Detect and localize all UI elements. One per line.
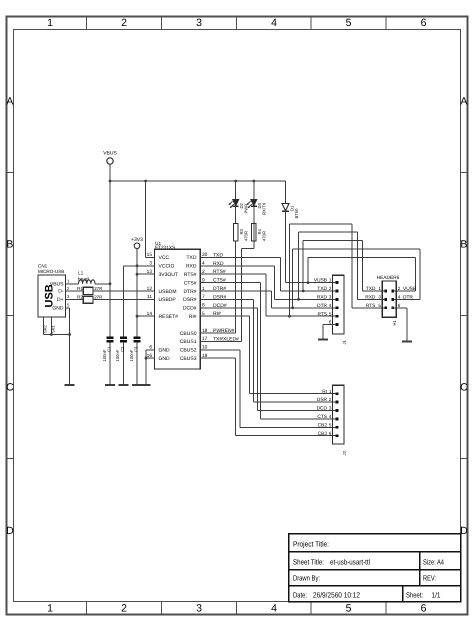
svg-text:RI#: RI# [189, 314, 197, 320]
resistor R2 27R [77, 295, 102, 304]
wire H1 pin6 to ground [392, 308, 407, 342]
svg-text:2: 2 [398, 286, 401, 291]
ground at CN1 [65, 384, 75, 386]
svg-text:Date:: Date: [293, 591, 307, 600]
svg-text:Size: A4: Size: A4 [423, 558, 444, 567]
svg-text:BT60: BT60 [294, 208, 299, 219]
svg-text:C3: C3 [134, 346, 139, 352]
svg-text:RXD: RXD [186, 264, 197, 270]
svg-text:CBUS1: CBUS1 [180, 339, 197, 345]
wire VBUS vertical down to C1 [109, 181, 111, 336]
svg-text:CB3: CB3 [318, 431, 328, 437]
svg-text:26/9/2560 10:12: 26/9/2560 10:12 [313, 591, 360, 600]
svg-text:3: 3 [196, 602, 202, 614]
svg-text:27R: 27R [94, 286, 102, 291]
wire R3 to PWREN row [235, 241, 237, 333]
svg-text:11: 11 [147, 294, 152, 300]
svg-text:CN1: CN1 [38, 263, 48, 268]
svg-text:6: 6 [149, 345, 152, 351]
resistor R1 27R [77, 286, 102, 294]
svg-text:DSR#: DSR# [183, 297, 197, 303]
svg-text:6: 6 [398, 303, 401, 308]
svg-text:RI: RI [322, 389, 327, 395]
svg-text:CTS: CTS [317, 414, 327, 420]
svg-text:DTR: DTR [403, 295, 413, 301]
wire CN1 GND pin down to ground [66, 307, 70, 309]
junction dots [50, 180, 309, 360]
svg-text:3: 3 [378, 295, 381, 300]
node VBUS terminal [103, 151, 117, 165]
connector J1 [314, 275, 347, 344]
svg-text:1: 1 [47, 17, 53, 29]
svg-text:RTS#: RTS# [184, 272, 197, 278]
svg-text:4: 4 [329, 414, 332, 419]
pin numbers U1 left [147, 252, 153, 359]
svg-text:TXD: TXD [187, 255, 197, 261]
diode D1 BT60 [282, 181, 299, 219]
svg-text:27R: 27R [94, 295, 102, 300]
wire TXRXLED row [200, 340, 241, 342]
svg-text:A: A [6, 95, 13, 107]
svg-text:D+: D+ [57, 297, 64, 303]
svg-text:3: 3 [329, 295, 332, 300]
wire RI net [200, 316, 336, 394]
wire VBUS top rail [110, 180, 286, 182]
pin numbers U1 right [202, 252, 208, 359]
svg-text:RX/TX: RX/TX [261, 202, 266, 215]
title block [289, 534, 461, 602]
svg-text:1: 1 [329, 389, 332, 394]
svg-text:A: A [460, 95, 467, 107]
IC U1 FT231XS [155, 241, 201, 369]
LED D3 RX/TX [247, 181, 267, 249]
wire C2 riser [122, 266, 124, 337]
svg-text:4: 4 [398, 295, 401, 300]
svg-text:B: B [460, 239, 467, 251]
wire DCD net [200, 308, 336, 411]
svg-text:VCCIO: VCCIO [159, 264, 175, 270]
wire J1 pin6 to ground [323, 325, 336, 340]
ground at H1 [402, 341, 412, 343]
svg-text:CBUS0: CBUS0 [180, 331, 197, 337]
wire chip GND pins [146, 350, 155, 385]
svg-text:GND: GND [159, 348, 171, 354]
svg-text:12: 12 [147, 286, 153, 292]
svg-text:SH1: SH1 [51, 324, 56, 333]
svg-text:1/1: 1/1 [432, 591, 441, 600]
svg-text:13: 13 [147, 269, 153, 275]
svg-text:5: 5 [346, 17, 352, 29]
ground at J1 [318, 339, 328, 341]
svg-text:USBDM: USBDM [159, 289, 177, 295]
svg-text:3: 3 [149, 261, 152, 267]
svg-text:RTS: RTS [317, 311, 327, 317]
svg-text:REV:: REV: [423, 574, 436, 583]
svg-text:VUSB: VUSB [403, 286, 416, 292]
svg-text:Sheet Title:: Sheet Title: [293, 558, 324, 567]
wire VCCIO branch [123, 265, 154, 267]
connector H1 HEADER6 [365, 275, 416, 326]
svg-text:4: 4 [271, 602, 277, 614]
wire CN1 shield pins SH2 SH1 [43, 317, 70, 335]
svg-text:VBUS: VBUS [103, 151, 117, 157]
svg-text:TXD: TXD [366, 286, 376, 292]
svg-text:HEADER6: HEADER6 [377, 275, 400, 281]
svg-text:16: 16 [147, 353, 153, 359]
svg-text:CB2: CB2 [318, 422, 328, 428]
wire 3V3 vertical [136, 248, 138, 336]
svg-text:D: D [6, 525, 14, 537]
svg-text:2: 2 [329, 286, 332, 291]
capacitor C2 100nF [115, 336, 128, 385]
svg-text:470R: 470R [261, 231, 266, 241]
net labels U1 right [213, 252, 239, 342]
svg-text:Project Title:: Project Title: [293, 540, 329, 549]
wire RTS net [200, 224, 384, 316]
svg-text:R2: R2 [77, 295, 83, 300]
svg-text:5: 5 [329, 422, 332, 427]
svg-text:R1: R1 [77, 286, 83, 291]
svg-text:J2: J2 [342, 450, 347, 455]
svg-text:14: 14 [147, 311, 153, 317]
wire D1 cathode to VUSB row [285, 211, 287, 282]
svg-text:6: 6 [329, 320, 332, 325]
wire VCC drop from rail [145, 181, 147, 257]
wire VUSB net [286, 257, 416, 291]
svg-text:5: 5 [378, 303, 381, 308]
svg-text:GND: GND [52, 306, 64, 312]
resistor R4 470R [252, 224, 267, 242]
svg-text:6: 6 [421, 17, 427, 29]
svg-text:USB: USB [44, 284, 56, 307]
svg-text:DTR: DTR [317, 303, 327, 309]
svg-text:TXD: TXD [317, 286, 327, 292]
wire CTS net [200, 283, 336, 419]
svg-text:et-usb-usart-ttl: et-usb-usart-ttl [330, 558, 370, 567]
svg-text:DSR: DSR [317, 397, 328, 403]
svg-text:1: 1 [47, 602, 53, 614]
svg-text:CTS#: CTS# [184, 280, 197, 286]
svg-text:DCD: DCD [317, 406, 328, 412]
wire R4 jog to TXRXLED row [242, 249, 254, 342]
svg-text:GND: GND [159, 356, 171, 362]
svg-text:RESET#: RESET# [159, 314, 179, 320]
wire D+ line [66, 298, 84, 300]
svg-text:DCD#: DCD# [183, 306, 197, 312]
svg-text:4: 4 [271, 17, 277, 29]
capacitor C1 100nF [102, 336, 115, 385]
svg-text:RTS: RTS [366, 303, 376, 309]
svg-text:4: 4 [329, 303, 332, 308]
svg-text:2: 2 [329, 397, 332, 402]
svg-text:VUSB: VUSB [314, 278, 327, 284]
svg-text:5: 5 [329, 311, 332, 316]
svg-text:B: B [6, 239, 13, 251]
svg-text:SH2: SH2 [43, 324, 48, 333]
wire bead to VBUS vertical [95, 283, 110, 285]
svg-text:DTR#: DTR# [183, 289, 196, 295]
svg-text:2: 2 [121, 602, 127, 614]
svg-text:2: 2 [121, 17, 127, 29]
svg-text:C: C [6, 382, 14, 394]
svg-text:RXD: RXD [365, 295, 376, 301]
svg-text:D: D [460, 525, 468, 537]
svg-text:+3V3: +3V3 [131, 237, 143, 243]
svg-text:Sheet:: Sheet: [406, 591, 423, 600]
resistor R3 470R [234, 224, 249, 242]
svg-text:6: 6 [329, 431, 332, 436]
wire VBUS vertical to rail [109, 164, 111, 181]
svg-text:J1: J1 [342, 339, 347, 344]
wire CBUS2 net [200, 350, 336, 428]
connector J2 [317, 385, 347, 455]
svg-text:CBUS2: CBUS2 [180, 348, 197, 354]
svg-text:PWR: PWR [243, 204, 248, 214]
wire CN1 VBUS pin to bead [66, 283, 79, 285]
wire TXD net [200, 241, 384, 291]
svg-text:C1: C1 [107, 346, 112, 352]
wire 3V3OUT branch [137, 273, 155, 275]
wire RESET branch [137, 315, 155, 317]
inductor L1 bead [78, 271, 95, 284]
wire PWREN row [200, 332, 235, 334]
svg-text:C2: C2 [120, 346, 125, 352]
wire CBUS3 net [200, 358, 336, 436]
svg-text:CBUS3: CBUS3 [180, 356, 197, 362]
svg-text:L1: L1 [78, 271, 84, 277]
svg-text:VBUS: VBUS [50, 282, 64, 288]
wire RXD net [200, 232, 384, 299]
svg-text:MICRO-USB: MICRO-USB [38, 269, 64, 274]
svg-text:1: 1 [329, 278, 332, 283]
wire DTR net [200, 249, 420, 308]
wire D- line [66, 290, 84, 292]
svg-text:3: 3 [329, 406, 332, 411]
svg-text:VCC: VCC [159, 255, 170, 261]
ground at chip GND [142, 384, 151, 386]
svg-text:3V3OUT: 3V3OUT [159, 272, 178, 278]
svg-text:470R: 470R [243, 231, 248, 241]
LED D2 PWR [229, 181, 249, 224]
svg-text:H1: H1 [392, 319, 397, 325]
svg-text:5: 5 [346, 602, 352, 614]
capacitor C3 100nF [129, 336, 142, 385]
svg-text:C: C [460, 382, 468, 394]
power +3V3 [131, 237, 143, 249]
svg-text:D-: D- [58, 289, 64, 295]
svg-text:USBDP: USBDP [159, 297, 177, 303]
svg-text:6: 6 [421, 602, 427, 614]
svg-text:1: 1 [378, 286, 381, 291]
connector CN1 MICRO-USB [38, 263, 70, 317]
svg-text:15: 15 [147, 252, 153, 258]
svg-text:RXD: RXD [317, 295, 328, 301]
wire DSR net [200, 299, 336, 402]
svg-text:Drawn By:: Drawn By: [293, 574, 320, 583]
svg-text:3: 3 [196, 17, 202, 29]
